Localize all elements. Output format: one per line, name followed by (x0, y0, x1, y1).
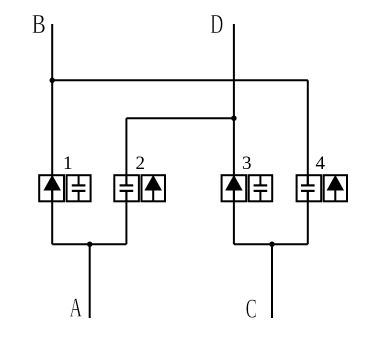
capacitor of module 1 (72, 175, 86, 201)
node B label (32, 9, 46, 39)
wire bottom bus C (module 3 to module 4) (234, 243, 308, 245)
module 4 capacitor cell box (297, 175, 322, 201)
wire second bus horizontal (module 2 branch to D wire) (126, 117, 233, 119)
wire top bus horizontal (B node to module 4 branch) (52, 79, 308, 81)
svg-text:A: A (69, 293, 82, 323)
wire bottom bus A (module 1 to module 2) (52, 243, 126, 245)
junction dot on D wire at second bus (231, 116, 236, 121)
capacitor of module 4 (301, 175, 315, 201)
node C label (246, 294, 257, 324)
svg-text:D: D (210, 9, 223, 39)
module 1 label "1" (63, 153, 73, 174)
svg-text:1: 1 (63, 153, 73, 174)
wire module 2 top branch vertical (bus corner down to module 2 capacitor top plate) (125, 118, 127, 185)
wire module 2 bottom lead vertical (125, 191, 127, 244)
junction dot on B wire at top bus (50, 78, 55, 83)
junction dot node A (87, 242, 92, 247)
module 2 diode cell box (142, 175, 166, 201)
svg-text:C: C (246, 294, 257, 324)
module 4 label "4" (316, 153, 326, 174)
diode of module 3 (filled up arrow) (226, 176, 242, 201)
wire C terminal vertical (271, 244, 273, 318)
junction dot node C (269, 242, 274, 247)
wire module 4 top branch vertical (bus corner down to module 4 capacitor top plate) (307, 80, 309, 185)
wire D terminal vertical (D down through module 3 to bottom bus) (233, 24, 235, 244)
module 3 capacitor cell box (249, 175, 273, 201)
node D label (210, 9, 223, 39)
svg-text:3: 3 (242, 153, 252, 174)
module 2 label "2" (135, 153, 145, 174)
svg-text:4: 4 (316, 153, 326, 174)
svg-text:2: 2 (135, 153, 145, 174)
module 1 diode cell box (39, 175, 64, 201)
capacitor of module 3 (254, 175, 268, 201)
capacitor of module 2 (120, 175, 134, 201)
wire module 4 bottom lead vertical (307, 191, 309, 244)
svg-text:B: B (32, 9, 46, 39)
module 4 diode cell box (324, 175, 347, 201)
node A label (69, 293, 82, 323)
module 3 diode cell box (222, 175, 247, 201)
wire B terminal vertical (B down through module 1 to bottom bus) (51, 24, 53, 244)
module 3 label "3" (242, 153, 252, 174)
module 1 capacitor cell box (67, 175, 91, 201)
wire A terminal vertical (89, 244, 91, 318)
diode of module 2 (filled up arrow) (145, 176, 161, 201)
diode of module 4 (filled up arrow) (327, 176, 343, 201)
module 2 capacitor cell box (114, 175, 139, 201)
diode of module 1 (filled up arrow) (44, 176, 60, 201)
